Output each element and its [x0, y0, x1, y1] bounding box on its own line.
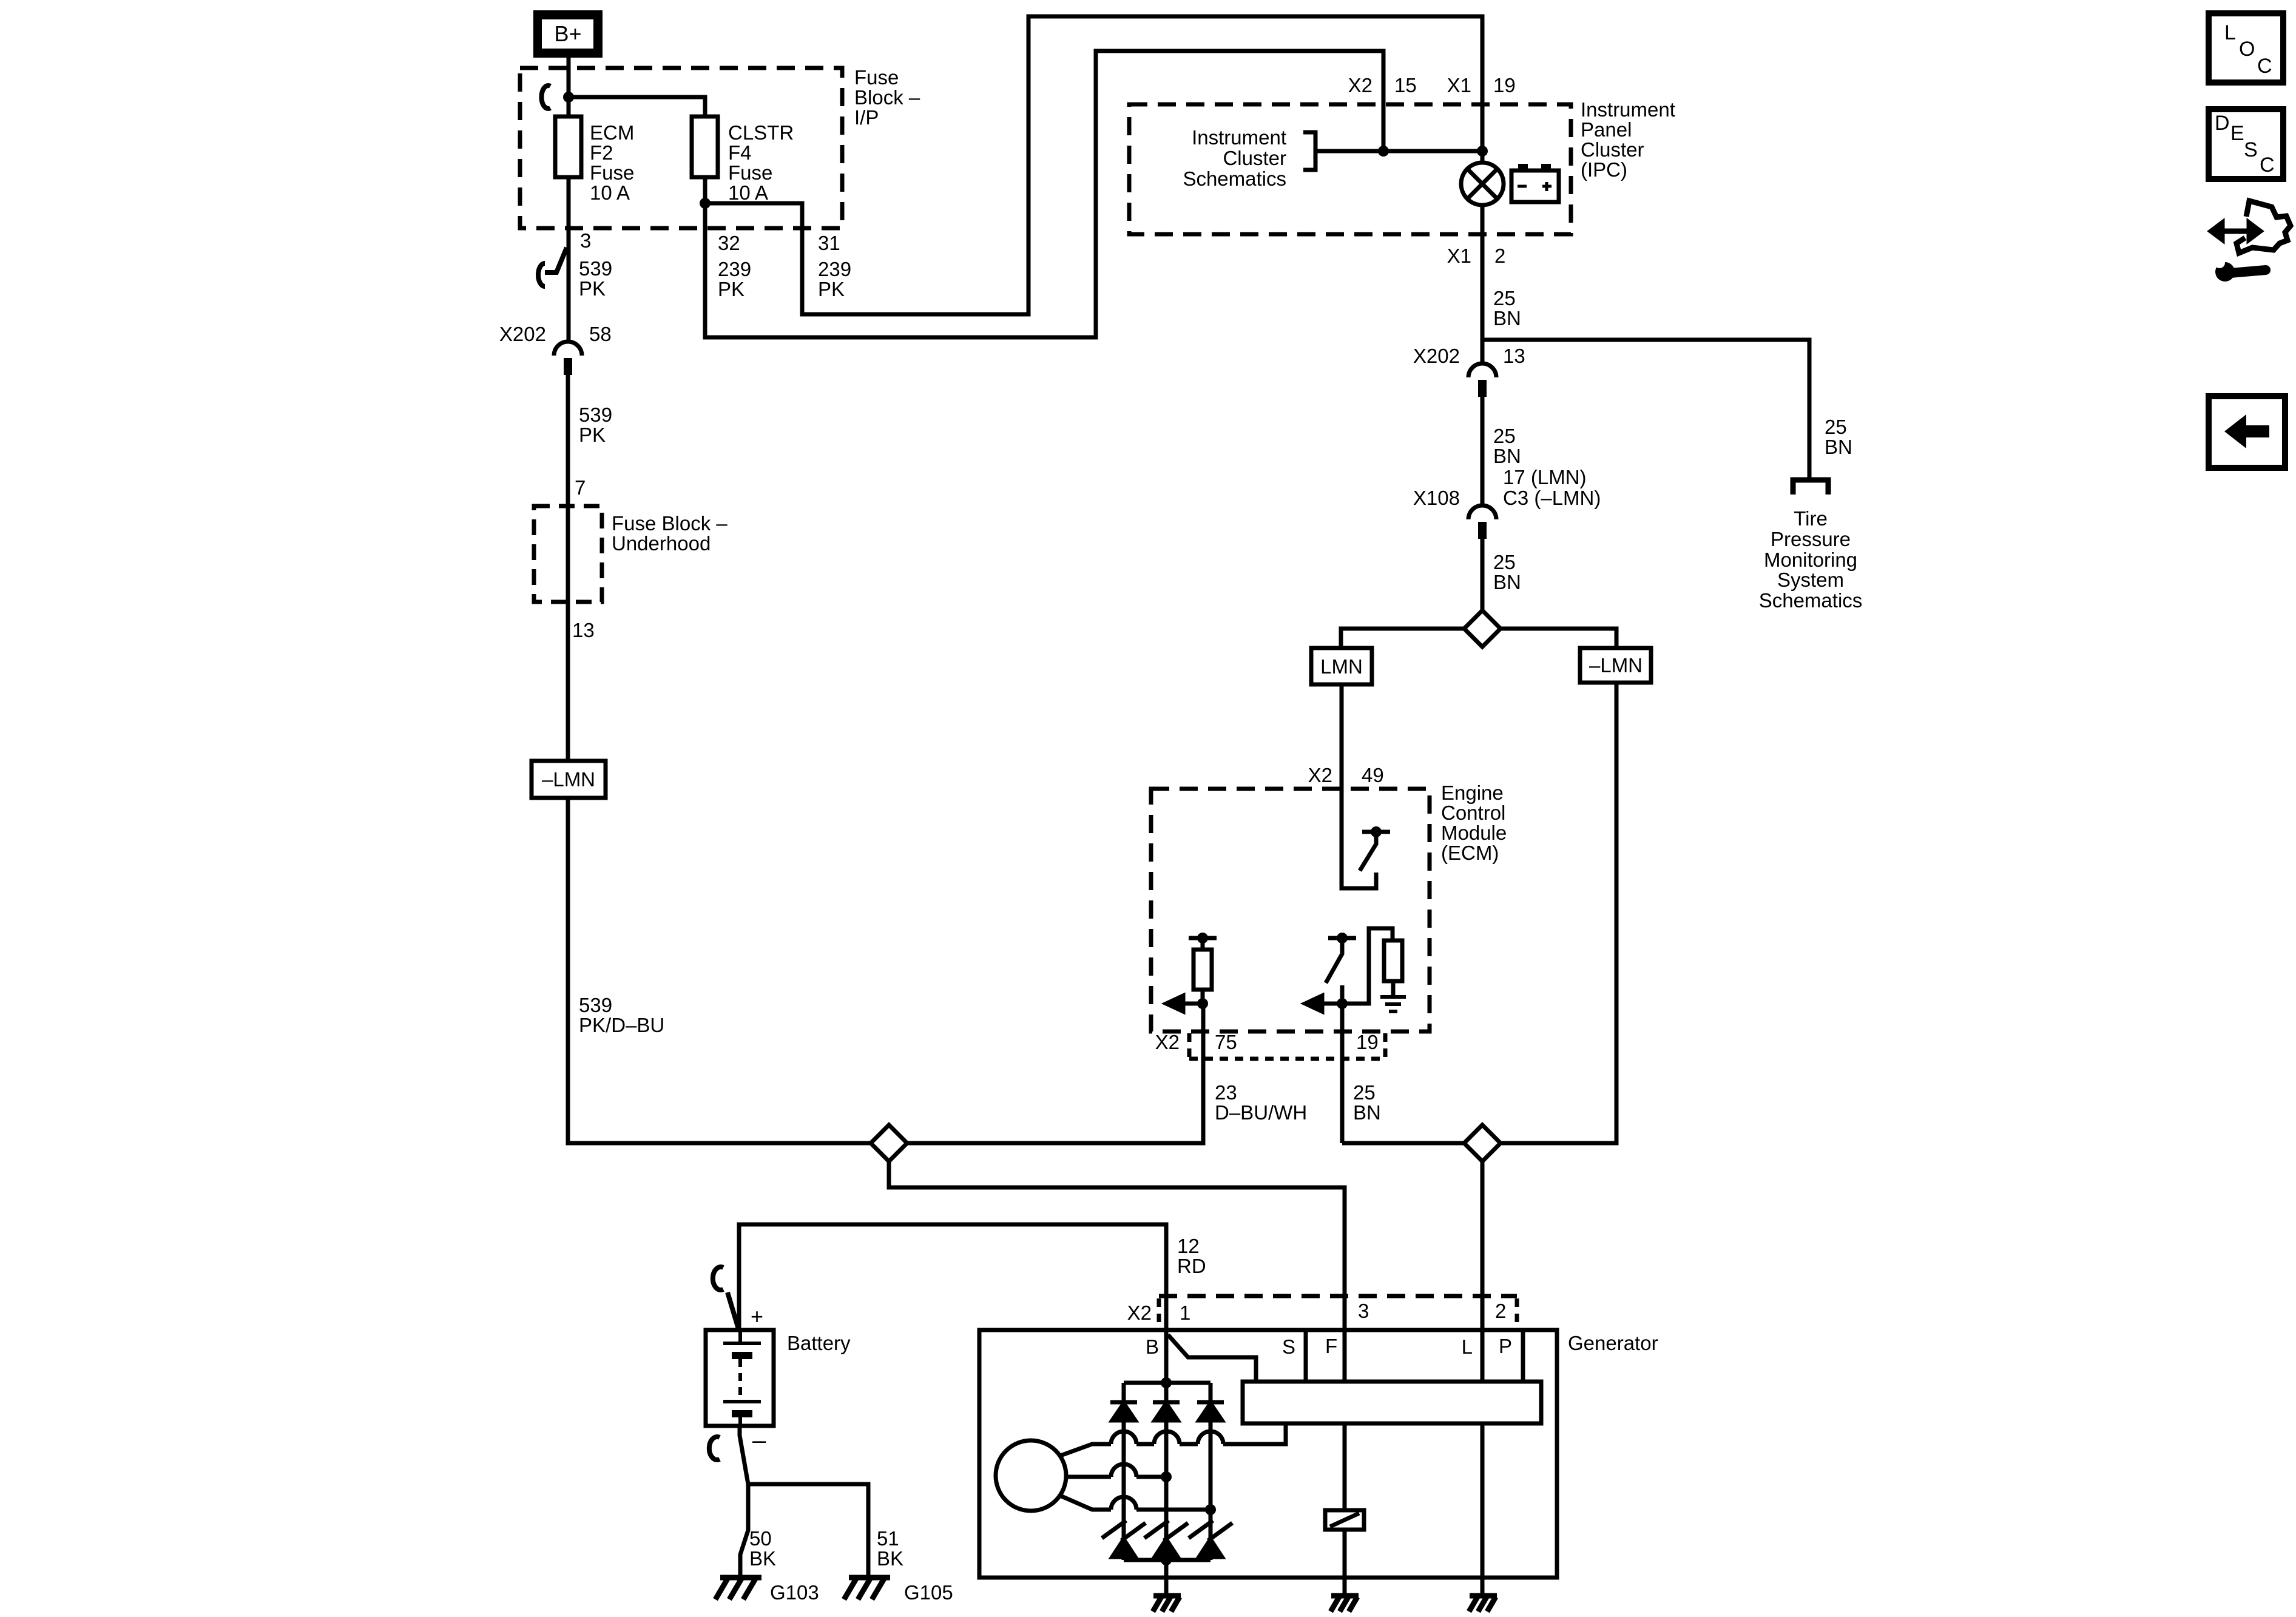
wire battery negative split to grounds [740, 1426, 748, 1576]
icon DESC box [2209, 109, 2283, 179]
svg-text:ECM: ECM [590, 121, 634, 144]
svg-text:D–BU/WH: D–BU/WH [1215, 1101, 1307, 1124]
svg-text:X2: X2 [1348, 74, 1373, 96]
svg-text:Module: Module [1441, 822, 1507, 844]
svg-text:539: 539 [579, 257, 612, 280]
svg-text:Underhood: Underhood [612, 532, 711, 555]
wire LMN to ECM pin X2-49 [1340, 684, 1344, 789]
node junction X2-15 [1378, 146, 1389, 157]
fuse block underhood dashed box [534, 506, 602, 602]
wire generator B internal [1164, 1330, 1169, 1578]
svg-text:Instrument: Instrument [1581, 98, 1675, 121]
svg-text:19: 19 [1356, 1031, 1379, 1053]
ECM connector row dashes [1189, 1033, 1385, 1057]
wire splice to generator L pin 2 [1481, 1161, 1485, 1382]
diode upper right [1197, 1400, 1224, 1405]
ECM switch 2 [1328, 936, 1356, 940]
svg-text:Engine: Engine [1441, 781, 1504, 804]
svg-text:239: 239 [718, 258, 751, 280]
svg-text:C: C [2257, 55, 2272, 78]
wire splice to -LMN [1501, 629, 1616, 648]
ground generator B [1153, 1596, 1181, 1612]
wire 25 BN from IPC X1-2 down [1481, 234, 1485, 363]
svg-text:F2: F2 [590, 141, 613, 164]
diode upper left [1110, 1400, 1137, 1405]
svg-text:10 A: 10 A [590, 181, 630, 204]
svg-text:PK: PK [718, 278, 745, 300]
svg-text:BK: BK [749, 1547, 776, 1570]
svg-text:C3 (–LMN): C3 (–LMN) [1503, 487, 1601, 509]
svg-text:Tire: Tire [1794, 507, 1828, 530]
svg-text:P: P [1499, 1335, 1512, 1357]
svg-text:12: 12 [1177, 1235, 1200, 1257]
svg-text:75: 75 [1215, 1031, 1237, 1053]
svg-text:CLSTR: CLSTR [728, 121, 794, 144]
svg-text:Schematics: Schematics [1759, 589, 1863, 612]
svg-text:58: 58 [589, 323, 612, 345]
svg-text:50: 50 [749, 1527, 772, 1550]
battery plates [723, 1330, 761, 1343]
wire fuse F4 pin 31 around to IPC pin X2-15 [705, 16, 1482, 314]
splice diamond middle [1464, 610, 1501, 647]
svg-text:2: 2 [1495, 1300, 1506, 1322]
svg-text:13: 13 [572, 619, 595, 641]
svg-text:51: 51 [877, 1527, 899, 1550]
fuse F2 ECM 10A [555, 116, 581, 177]
svg-text:PK/D–BU: PK/D–BU [579, 1014, 664, 1036]
svg-text:G103: G103 [770, 1581, 819, 1604]
svg-text:X202: X202 [1413, 345, 1460, 367]
wire 25 BN between X202 and X108 [1481, 397, 1485, 505]
svg-text:PK: PK [579, 424, 606, 446]
svg-text:D: D [2215, 112, 2230, 135]
battery box [706, 1330, 774, 1426]
zener diode lower middle [1144, 1521, 1188, 1541]
svg-text:S: S [2244, 138, 2258, 161]
svg-text:L: L [1462, 1335, 1473, 1358]
connector X202-58 symbol [554, 342, 582, 356]
svg-text:Fuse: Fuse [590, 161, 634, 184]
svg-text:Fuse: Fuse [728, 161, 772, 184]
svg-text:BN: BN [1493, 571, 1521, 593]
wire -LMN down to splice [1501, 683, 1616, 1143]
svg-text:31: 31 [818, 232, 840, 254]
svg-text:3: 3 [1358, 1300, 1369, 1322]
generator box [979, 1330, 1557, 1578]
icon connector arrow [2221, 229, 2250, 234]
node junction below fuse F4 [700, 198, 711, 209]
svg-text:E: E [2230, 122, 2244, 145]
svg-text:25: 25 [1353, 1081, 1376, 1104]
svg-text:Instrument: Instrument [1192, 126, 1286, 149]
svg-text:Control: Control [1441, 802, 1505, 824]
zener diode lower left [1102, 1521, 1146, 1541]
svg-text:25: 25 [1493, 551, 1516, 573]
svg-text:I/P: I/P [854, 106, 879, 129]
svg-text:Pressure: Pressure [1771, 528, 1851, 550]
ground G103 [715, 1578, 761, 1599]
wire ECM pin 19 internal [1340, 985, 1345, 1143]
diode upper middle [1153, 1400, 1180, 1405]
svg-text:Fuse: Fuse [854, 66, 899, 89]
svg-text:(IPC): (IPC) [1581, 158, 1627, 181]
svg-text:Cluster: Cluster [1223, 147, 1286, 169]
svg-text:Cluster: Cluster [1581, 138, 1644, 161]
splice diamond lower-left [871, 1125, 907, 1161]
wire splice to generator F pin 3 [889, 1161, 1345, 1382]
wire generator F ground stub [1343, 1578, 1347, 1596]
icon back arrow [2224, 414, 2269, 448]
svg-text:539: 539 [579, 994, 612, 1016]
svg-text:PK: PK [579, 277, 606, 300]
svg-text:25: 25 [1493, 425, 1516, 447]
connector X202-13 symbol [1468, 363, 1496, 377]
diode bridge top rail [1124, 1381, 1210, 1385]
field element box [1325, 1510, 1364, 1530]
svg-text:BN: BN [1493, 307, 1521, 329]
stator circle [996, 1440, 1066, 1511]
svg-text:19: 19 [1493, 74, 1516, 96]
svg-text:RD: RD [1177, 1255, 1206, 1277]
icon LOC box [2209, 13, 2283, 83]
connector hook below fuse F2 pin 3 [538, 248, 567, 286]
wire resistor to ground [1391, 981, 1396, 997]
wire branch to TPMS [1482, 340, 1809, 480]
svg-text:Schematics: Schematics [1183, 167, 1286, 190]
svg-text:BN: BN [1353, 1101, 1381, 1124]
wire bridge to ground [1164, 1560, 1169, 1596]
stator phase 1 [1059, 1423, 1286, 1456]
arrow output switch 2 [1323, 928, 1393, 1004]
diode bridge bottom rail [1124, 1558, 1210, 1562]
svg-text:–LMN: –LMN [542, 768, 595, 791]
wire L internal [1481, 1423, 1485, 1578]
ECM switch 1 [1342, 789, 1376, 888]
svg-text:F4: F4 [728, 141, 752, 164]
wire F internal to field [1343, 1423, 1347, 1578]
svg-text:X1: X1 [1447, 74, 1471, 96]
node junction sense output [1197, 998, 1208, 1009]
svg-text:LMN: LMN [1320, 655, 1363, 678]
resistor ECM sense [1189, 936, 1217, 940]
svg-text:Monitoring: Monitoring [1764, 549, 1857, 571]
fuse F4 CLSTR 10A [692, 116, 718, 177]
battery icon IPC [1518, 164, 1528, 171]
splice diamond lower-right [1464, 1125, 1501, 1161]
svg-text:F: F [1325, 1335, 1337, 1357]
svg-text:BN: BN [1825, 436, 1852, 458]
generator terminal divider S [1304, 1330, 1308, 1382]
label box LMN [1311, 648, 1372, 684]
svg-text:Panel: Panel [1581, 118, 1632, 141]
wire ECM pin 19 to splice [1342, 1141, 1464, 1146]
resistor ECM pull [1384, 940, 1402, 981]
svg-text:539: 539 [579, 403, 612, 426]
svg-text:S: S [1282, 1335, 1295, 1358]
wire generator L ground stub [1481, 1578, 1485, 1596]
svg-text:Fuse Block –: Fuse Block – [612, 512, 728, 535]
power symbol B+ box [533, 10, 603, 58]
wire 25 BN to splice diamond [1481, 539, 1485, 610]
svg-text:B: B [1146, 1335, 1159, 1358]
regulator box [1243, 1382, 1541, 1423]
svg-text:O: O [2239, 38, 2255, 61]
svg-text:–LMN: –LMN [1589, 654, 1643, 677]
generator terminal divider P [1521, 1330, 1525, 1382]
wire ECM pin 75 internal [1201, 990, 1205, 1004]
node junction switch 2 output [1337, 998, 1348, 1009]
icon wrench [2215, 262, 2235, 282]
svg-text:3: 3 [580, 229, 591, 252]
ground generator L [1469, 1596, 1497, 1612]
generator connector dashed row [1159, 1294, 1517, 1298]
fuse block I/P dashed box [520, 68, 842, 228]
ground generator F [1331, 1596, 1359, 1612]
top wire IPC X2-15 to instrument cluster bracket junction [1315, 149, 1482, 154]
wire lamp feed [1481, 151, 1485, 234]
icon back box [2209, 396, 2285, 468]
svg-text:23: 23 [1215, 1081, 1237, 1104]
IPC dashed box [1129, 104, 1571, 234]
wire fuse F4 pin 32 down and around to IPC pin X1-19 [705, 51, 1383, 337]
svg-text:–: – [752, 1427, 766, 1454]
svg-text:System: System [1777, 569, 1844, 591]
node junction B rail [1161, 1377, 1172, 1388]
ground ECM internal [1380, 997, 1406, 1011]
svg-text:32: 32 [718, 232, 740, 254]
svg-text:13: 13 [1503, 345, 1525, 367]
svg-text:+: + [751, 1304, 763, 1329]
svg-text:C: C [2260, 154, 2275, 177]
stator phase 2 [1066, 1475, 1166, 1479]
node junction X1-19 [1477, 146, 1488, 157]
indicator lamp symbol [1461, 163, 1504, 205]
svg-text:25: 25 [1825, 416, 1847, 438]
svg-text:(ECM): (ECM) [1441, 842, 1499, 864]
svg-text:Generator: Generator [1568, 1332, 1658, 1354]
bracket instrument cluster schematics [1303, 132, 1315, 170]
label box -LMN (right) [1580, 648, 1651, 683]
wire 539 PK down through underhood fuse block [566, 375, 570, 761]
svg-text:L: L [2224, 21, 2236, 44]
wire B to regulator [1168, 1335, 1256, 1382]
svg-text:G105: G105 [904, 1581, 953, 1604]
svg-text:BN: BN [1493, 445, 1521, 467]
svg-text:B+: B+ [554, 21, 581, 46]
svg-text:Battery: Battery [787, 1332, 851, 1354]
wire junction to fuse F4 [569, 97, 705, 116]
svg-text:X2: X2 [1308, 764, 1332, 786]
svg-text:X108: X108 [1413, 487, 1460, 509]
connector hook battery negative [709, 1437, 720, 1460]
svg-text:X1: X1 [1447, 245, 1471, 267]
svg-text:BK: BK [877, 1547, 903, 1570]
ECM dashed box [1151, 789, 1430, 1031]
svg-text:1: 1 [1180, 1301, 1190, 1324]
connector X108 symbol [1468, 505, 1496, 519]
svg-text:25: 25 [1493, 287, 1516, 309]
svg-text:2: 2 [1494, 245, 1505, 267]
svg-text:15: 15 [1394, 74, 1417, 96]
ground G105 [844, 1578, 890, 1599]
svg-text:X2: X2 [1127, 1301, 1152, 1324]
svg-text:239: 239 [818, 258, 851, 280]
svg-text:X2: X2 [1155, 1031, 1180, 1053]
zener diode lower right [1189, 1521, 1232, 1541]
arrow output sense [1183, 1002, 1203, 1006]
wire splice to LMN [1341, 629, 1464, 648]
node junction below B+ [563, 92, 574, 103]
wire B+ to fuse F2 and down to X202 [567, 58, 571, 342]
diode column left [1122, 1383, 1126, 1560]
svg-text:10 A: 10 A [728, 181, 768, 204]
svg-text:X202: X202 [499, 323, 546, 345]
svg-text:7: 7 [575, 476, 586, 499]
wire 539 PK/D-BU down to splice [568, 798, 1203, 1143]
off-page connector TPMS [1793, 480, 1828, 495]
label box -LMN (left) [532, 761, 606, 798]
stator phase 3 [1059, 1495, 1210, 1510]
connector hook battery positive [713, 1267, 738, 1329]
connector hook at B+ junction [541, 86, 550, 109]
battery positive wire to generator B pin X2-1 [739, 1224, 1166, 1330]
svg-text:Block –: Block – [854, 86, 920, 109]
svg-text:PK: PK [818, 278, 845, 300]
svg-text:49: 49 [1362, 764, 1384, 786]
diode column right [1209, 1383, 1213, 1560]
svg-text:17 (LMN): 17 (LMN) [1503, 466, 1587, 488]
